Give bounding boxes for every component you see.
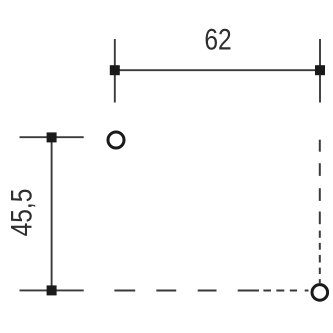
wire: vertical hidden dashed line <box>319 140 321 284</box>
node: hole circle bottom-right <box>312 285 328 301</box>
svg-text:62: 62 <box>204 22 231 56</box>
wire: top dimension extension line left <box>114 39 116 103</box>
node: square terminator top-right <box>315 65 325 75</box>
wire: left dimension line 45,5 <box>51 137 53 290</box>
wire: left dimension extension line bottom <box>20 289 84 291</box>
wire: top dimension extension line right <box>319 39 321 103</box>
node: square terminator left-top <box>47 132 57 142</box>
node: hole circle top-left <box>108 132 124 148</box>
svg-text:45,5: 45,5 <box>4 189 38 237</box>
node: square terminator left-bottom <box>47 285 57 295</box>
wire: top dimension line 62 <box>115 69 320 71</box>
wire: horizontal hidden dashed line <box>114 290 308 292</box>
node: square terminator top-left <box>110 65 120 75</box>
wire: left dimension extension line top <box>20 136 84 138</box>
